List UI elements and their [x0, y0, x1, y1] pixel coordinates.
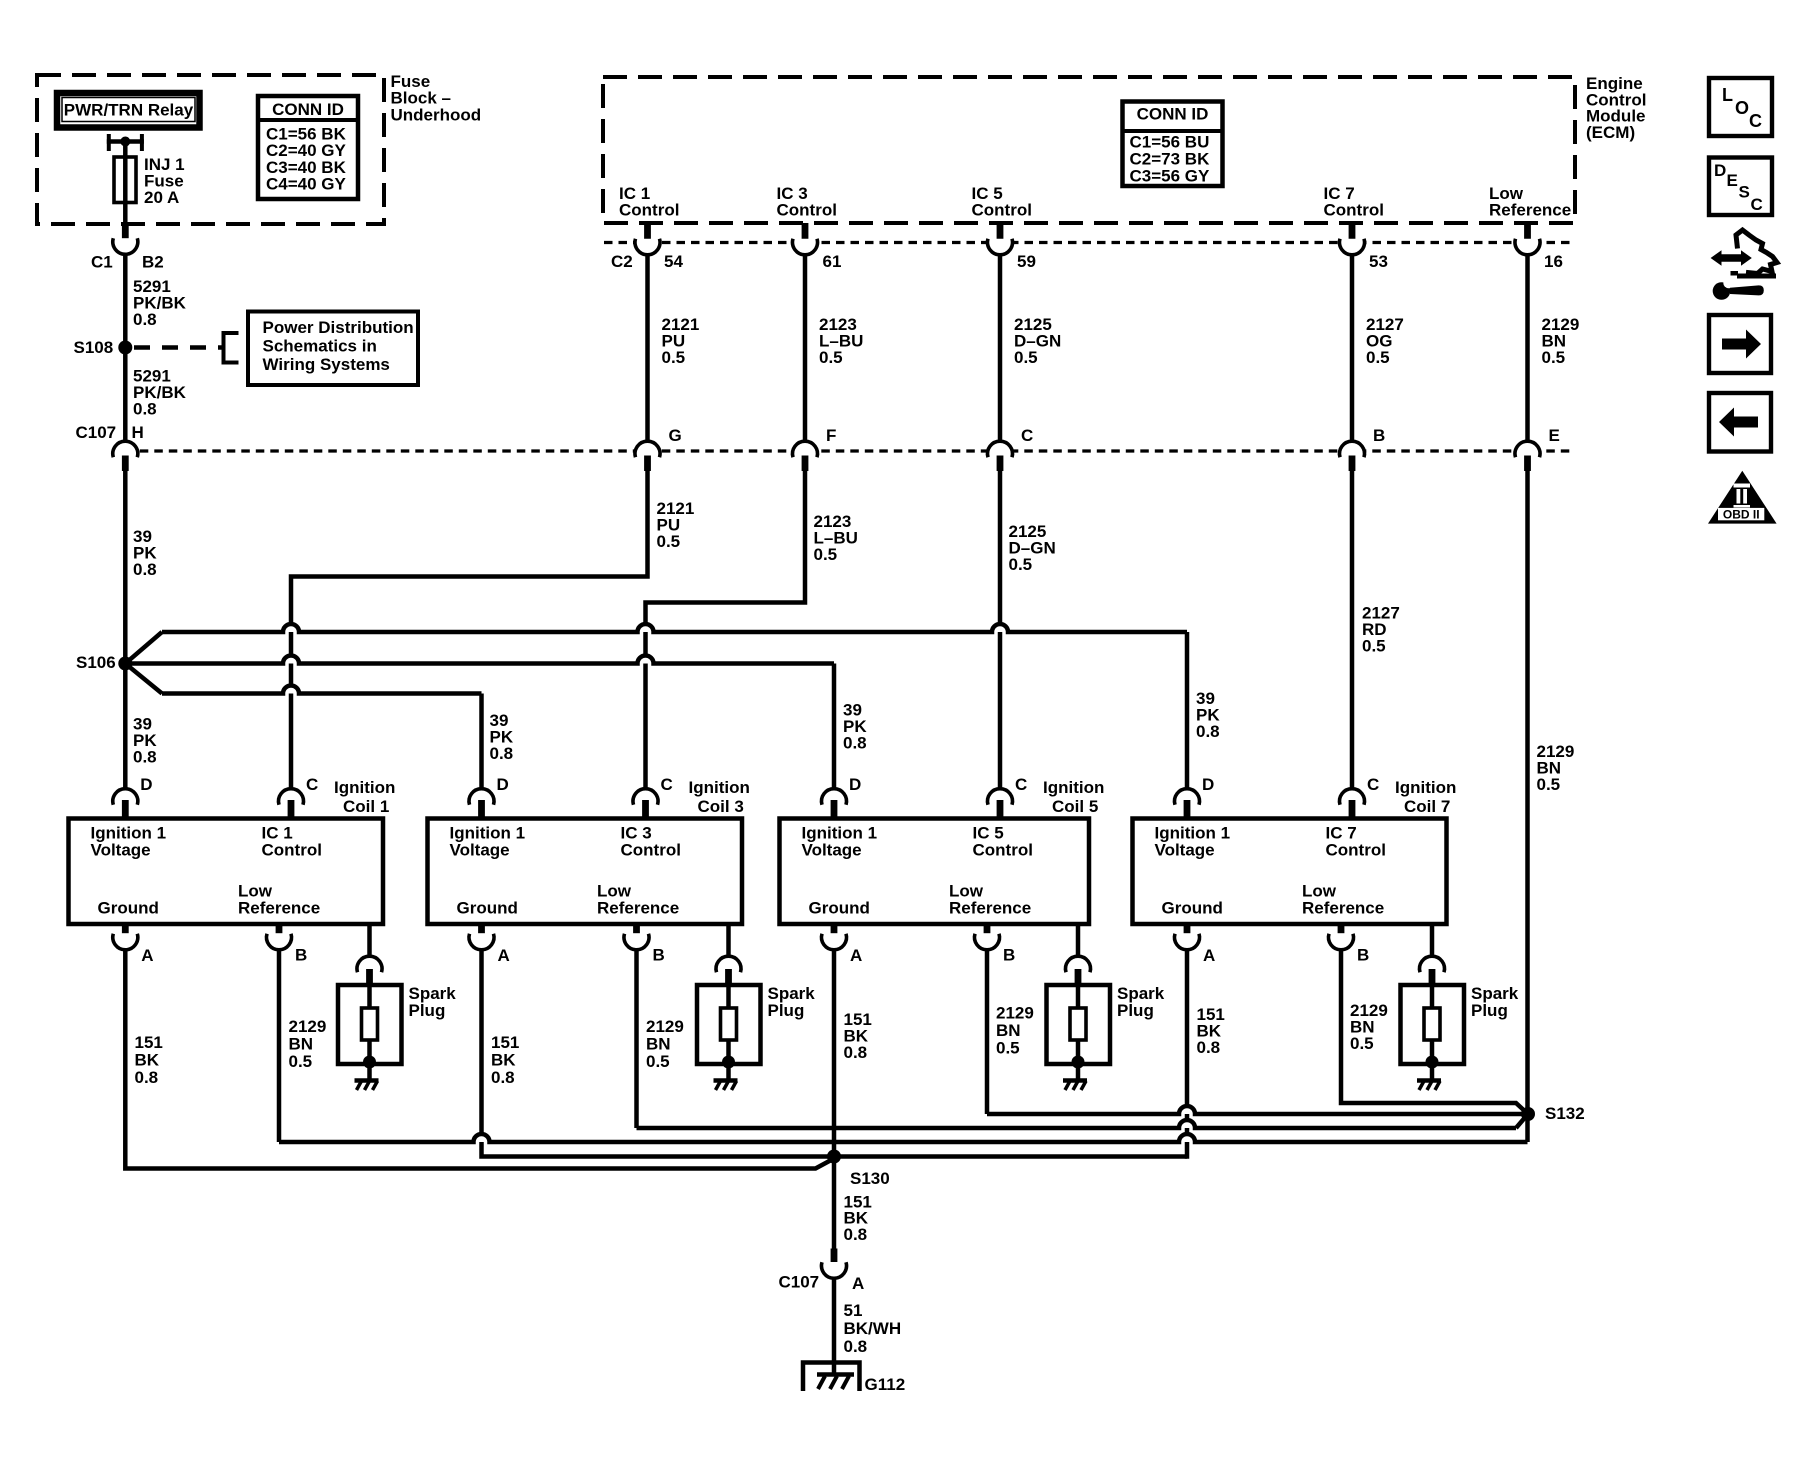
svg-text:CONN ID: CONN ID: [1137, 105, 1209, 124]
ECM connector face dotted line: [604, 241, 1571, 244]
spark plug 7 ground junction dot: [1426, 1056, 1439, 1069]
ECM pin label IC 3 Control: [777, 184, 837, 220]
svg-text:Ignition: Ignition: [689, 778, 750, 797]
svg-text:D: D: [140, 775, 152, 794]
fuse INJ 1 20 A: [114, 157, 136, 203]
wire 2127 OG ECM segment: [1350, 255, 1355, 442]
svg-text:0.5: 0.5: [1537, 775, 1561, 794]
coil 7 pin C: [1340, 789, 1365, 821]
wire 2125 D-GN ECM segment: [998, 255, 1003, 442]
wire 39 PK upper bus to coil 7 D: [125, 624, 1187, 789]
svg-text:Underhood: Underhood: [391, 105, 482, 124]
wire 2129 BN long run to S132: [1525, 471, 1530, 1114]
svg-text:0.5: 0.5: [1014, 348, 1038, 367]
spark plug connector coil 5: [1066, 956, 1091, 987]
label 39 PK 0.8 (coil 5): [843, 701, 867, 753]
coil 7 pin D: [1175, 789, 1200, 821]
wire 2125 D-GN to coil 5: [998, 471, 1003, 789]
svg-text:BN: BN: [289, 1035, 314, 1054]
svg-text:Ignition: Ignition: [334, 778, 395, 797]
label Ignition Coil 1: [334, 778, 395, 816]
svg-text:0.8: 0.8: [133, 560, 157, 579]
svg-text:S130: S130: [850, 1169, 890, 1188]
spark plug connector coil 7: [1420, 956, 1445, 987]
svg-text:Reference: Reference: [238, 899, 320, 918]
connector C107 pin E: [1515, 441, 1540, 471]
label 2127 OG 0.5: [1366, 315, 1404, 367]
wire 2129 BN ECM segment: [1525, 255, 1530, 442]
svg-text:O: O: [1735, 98, 1749, 118]
label Ignition Coil 7: [1395, 778, 1456, 816]
ground G112: [803, 1363, 860, 1392]
wire coil 7 to spark plug: [1430, 924, 1435, 957]
ignition coil 3 box: [428, 819, 743, 925]
label 39 PK 0.8 (H wire): [133, 527, 157, 579]
spark plug connector coil 1: [357, 956, 382, 987]
svg-text:0.5: 0.5: [657, 532, 681, 551]
fuse block underhood dashed box: [37, 75, 384, 224]
coil 3 pin D: [469, 789, 494, 821]
svg-text:Ignition: Ignition: [1043, 778, 1104, 797]
fuse block CONN ID table: [258, 96, 358, 199]
svg-text:G112: G112: [865, 1375, 906, 1394]
spark plug 3 ground junction dot: [722, 1056, 735, 1069]
ignition coil 1 box: [69, 819, 384, 925]
spark plug 7 ground: [1417, 1062, 1441, 1090]
svg-text:Control: Control: [262, 840, 322, 859]
coil 1 pin D: [113, 789, 138, 821]
coil 1 pin C: [279, 789, 304, 821]
wire 39 PK middle bus to coil 5 D: [125, 656, 834, 789]
svg-text:0.5: 0.5: [1009, 555, 1033, 574]
coil 3 pin B: [624, 922, 649, 950]
wire 151 BK coil 1 ground: [125, 950, 834, 1169]
label 39 PK 0.8 (coil 3): [490, 711, 514, 763]
wire 2127 RD to coil 7: [1350, 471, 1355, 789]
coil 5 pin B: [974, 922, 999, 950]
relay contact bracket: [107, 134, 144, 151]
icon DESC box: [1709, 158, 1772, 216]
splice S108: [118, 341, 132, 355]
svg-text:0.8: 0.8: [491, 1068, 515, 1087]
svg-text:B: B: [1357, 946, 1369, 965]
label 151 BK 0.8 coil 1: [135, 1033, 163, 1087]
splice S106: [118, 657, 132, 671]
svg-text:C: C: [1021, 426, 1033, 445]
svg-text:Wiring Systems: Wiring Systems: [263, 355, 390, 374]
wire 2129 BN coil 7 low reference to S132: [1341, 950, 1528, 1115]
svg-text:53: 53: [1369, 252, 1388, 271]
svg-text:S106: S106: [76, 653, 116, 672]
spark plug 5: [1047, 985, 1111, 1064]
label 2123 L-BU 0.5 lower: [814, 512, 858, 564]
connector C107 dotted line: [125, 449, 1571, 452]
label Ignition Coil 3: [689, 778, 750, 816]
svg-text:BN: BN: [646, 1035, 671, 1054]
svg-text:0.8: 0.8: [490, 744, 514, 763]
svg-text:Ignition: Ignition: [1395, 778, 1456, 797]
svg-text:BK/WH: BK/WH: [844, 1319, 902, 1338]
wire 2121 PU to coil 1: [291, 471, 648, 789]
svg-text:151: 151: [135, 1033, 163, 1052]
svg-text:B2: B2: [142, 253, 164, 272]
svg-text:0.5: 0.5: [814, 545, 838, 564]
svg-text:0.5: 0.5: [996, 1039, 1020, 1058]
wire 2129 BN coil 1 low reference to S132: [279, 950, 1528, 1143]
svg-text:59: 59: [1017, 252, 1036, 271]
wire 39 PK lower bus to coil 3 D: [125, 664, 481, 789]
svg-text:A: A: [498, 946, 510, 965]
wire 39 PK from C107 H to S106: [123, 471, 128, 664]
wire 2129 BN coil 5 low reference to S132: [987, 950, 1528, 1115]
svg-text:Ground: Ground: [1162, 899, 1223, 918]
svg-text:0.5: 0.5: [1366, 348, 1390, 367]
ECM pin label IC 7 Control: [1324, 184, 1384, 220]
icon OBD II triangle: [1708, 471, 1777, 524]
svg-text:0.8: 0.8: [133, 400, 157, 419]
coil 1 pin A: [113, 922, 138, 950]
svg-text:S: S: [1739, 183, 1750, 202]
svg-text:C: C: [1751, 195, 1763, 214]
wire coil 3 to spark plug: [726, 924, 731, 957]
label 151 BK 0.8 coil 3: [491, 1033, 519, 1087]
svg-text:0.5: 0.5: [1542, 348, 1566, 367]
label Spark Plug 3: [768, 984, 816, 1020]
svg-text:E: E: [1549, 426, 1560, 445]
label 2129 BN 0.5 coil 1: [289, 1017, 327, 1071]
ignition coil 7 box: [1133, 819, 1447, 925]
svg-text:0.8: 0.8: [1197, 1038, 1221, 1057]
spark plug 5 ground: [1063, 1062, 1087, 1090]
svg-text:Control: Control: [973, 840, 1033, 859]
label 2123 L-BU 0.5: [819, 315, 863, 367]
svg-text:Coil 7: Coil 7: [1404, 797, 1450, 816]
label 151 BK 0.8 coil 5: [844, 1010, 872, 1062]
ECM connector pin IC1: [635, 239, 660, 255]
svg-text:C: C: [1015, 775, 1027, 794]
icon forward arrow box: [1709, 315, 1771, 373]
ECM pin stub IC7: [1349, 223, 1356, 240]
svg-text:C4=40 GY: C4=40 GY: [266, 175, 347, 194]
svg-text:D: D: [497, 775, 509, 794]
icon back arrow box: [1709, 393, 1771, 452]
svg-text:Ground: Ground: [809, 899, 870, 918]
svg-text:C: C: [661, 775, 673, 794]
svg-text:Control: Control: [777, 201, 837, 220]
connector C1 pin B2: [113, 238, 138, 254]
svg-text:Ground: Ground: [98, 899, 159, 918]
label Ignition Coil 5: [1043, 778, 1104, 816]
wire 39 PK S106 to coil 1 D: [123, 664, 128, 789]
wire relay to fuse: [123, 142, 128, 159]
svg-text:S108: S108: [74, 338, 114, 357]
svg-text:151: 151: [491, 1033, 519, 1052]
label 2129 BN 0.5: [1542, 315, 1580, 367]
connector C107 pin C: [987, 441, 1012, 471]
label INJ 1 Fuse 20 A: [144, 155, 185, 207]
label 2127 RD 0.5: [1362, 604, 1400, 656]
label Spark Plug 1: [409, 984, 457, 1020]
coil 7 pin A: [1175, 922, 1200, 950]
svg-text:Control: Control: [621, 840, 681, 859]
ECM connector pin LowRef: [1515, 239, 1540, 255]
svg-text:C3=56 GY: C3=56 GY: [1130, 167, 1211, 186]
wire coil 1 to spark plug: [367, 924, 372, 957]
spark plug connector coil 3: [716, 956, 741, 987]
svg-text:61: 61: [823, 252, 842, 271]
label 2129 BN 0.5 coil 7: [1350, 1001, 1388, 1053]
wire 151 BK coil 5 ground: [832, 950, 837, 1157]
svg-text:D: D: [1714, 161, 1726, 180]
ignition coil 5 box: [780, 819, 1090, 925]
label Engine Control Module (ECM): [1586, 74, 1646, 142]
coil 5 pin C: [987, 789, 1012, 821]
coil 1 pin B: [267, 922, 292, 950]
label Fuse Block Underhood: [391, 72, 482, 124]
relay PWR/TRN Relay: [57, 93, 200, 128]
svg-text:Reference: Reference: [1489, 201, 1571, 220]
label 2129 BN 0.5 coil 5: [996, 1004, 1034, 1058]
svg-text:C107: C107: [76, 423, 117, 442]
svg-text:Reference: Reference: [949, 899, 1031, 918]
connector C107 pin A: [822, 1262, 847, 1278]
svg-text:B: B: [1003, 946, 1015, 965]
svg-text:0.8: 0.8: [135, 1068, 159, 1087]
spark plug 7: [1401, 985, 1465, 1064]
svg-text:L: L: [1722, 85, 1733, 105]
wire 2123 L-BU ECM segment: [803, 255, 808, 442]
spark plug 3 ground: [714, 1062, 738, 1090]
spark plug 1 ground junction dot: [363, 1056, 376, 1069]
svg-text:C2: C2: [611, 252, 633, 271]
svg-text:OBD II: OBD II: [1723, 508, 1760, 522]
svg-text:0.8: 0.8: [133, 748, 157, 767]
connector C107 pin F: [793, 441, 818, 471]
wire 5291 PK/BK upper: [123, 255, 128, 442]
coil 3 pin C: [633, 789, 658, 821]
svg-text:0.8: 0.8: [843, 734, 867, 753]
label 39 PK 0.8 (coil 7): [1196, 689, 1220, 741]
svg-text:F: F: [826, 426, 836, 445]
svg-text:A: A: [1203, 946, 1215, 965]
svg-text:G: G: [669, 426, 682, 445]
icon electrical repair (arrow wrench): [1711, 230, 1777, 300]
svg-text:Plug: Plug: [1471, 1001, 1508, 1020]
label 2129 BN 0.5 coil 3: [646, 1017, 684, 1071]
svg-text:Power Distribution: Power Distribution: [263, 318, 414, 337]
svg-text:D: D: [849, 775, 861, 794]
wire 2129 BN coil 3 low reference to S132: [637, 950, 1529, 1129]
wire 51 BK/WH to G112: [832, 1279, 837, 1375]
svg-text:51: 51: [844, 1301, 863, 1320]
svg-text:0.8: 0.8: [1196, 722, 1220, 741]
svg-text:Plug: Plug: [1117, 1001, 1154, 1020]
label 2121 PU 0.5 lower: [657, 499, 695, 551]
wire 151 BK coil 3 ground + A bus: [482, 950, 1188, 1157]
ECM pin stub IC3: [802, 223, 809, 240]
svg-text:D: D: [1202, 775, 1214, 794]
wire fuse to C1 connector: [123, 203, 128, 226]
label 151 BK 0.8 coil 7: [1197, 1005, 1225, 1057]
ECM connector pin IC7: [1340, 239, 1365, 255]
svg-text:0.8: 0.8: [133, 310, 157, 329]
ECM pin label IC 5 Control: [972, 184, 1032, 220]
svg-text:Coil 3: Coil 3: [698, 797, 744, 816]
svg-text:0.8: 0.8: [844, 1043, 868, 1062]
svg-text:C: C: [306, 775, 318, 794]
coil 3 pin A: [469, 922, 494, 950]
label Spark Plug 5: [1117, 984, 1165, 1020]
svg-text:0.5: 0.5: [1350, 1034, 1374, 1053]
svg-text:Voltage: Voltage: [450, 840, 510, 859]
wire 2121 PU ECM segment: [645, 255, 650, 442]
svg-text:A: A: [850, 946, 862, 965]
svg-text:B: B: [295, 946, 307, 965]
svg-text:2129: 2129: [289, 1017, 327, 1036]
svg-text:Reference: Reference: [1302, 899, 1384, 918]
wire 2123 L-BU to coil 3: [646, 471, 806, 789]
svg-text:2129: 2129: [996, 1004, 1034, 1023]
svg-text:Schematics in: Schematics in: [263, 337, 377, 356]
spark plug 1 ground: [355, 1062, 379, 1090]
label 2121 PU 0.5: [662, 315, 700, 367]
dashed reference link from S108: [134, 345, 222, 350]
svg-text:Control: Control: [1326, 840, 1386, 859]
svg-text:Voltage: Voltage: [1155, 840, 1215, 859]
spark plug 1: [338, 985, 402, 1064]
svg-text:C: C: [1367, 775, 1379, 794]
engine control module dashed box: [603, 77, 1575, 223]
reference bracket: [224, 333, 239, 363]
label 39 PK 0.8 (coil 1): [133, 715, 157, 767]
wire 151 BK S130 to C107 A: [832, 1157, 837, 1250]
svg-text:S132: S132: [1545, 1104, 1585, 1123]
ECM pin stub IC1: [644, 223, 651, 240]
svg-text:B: B: [653, 946, 665, 965]
svg-text:BK: BK: [491, 1051, 516, 1070]
svg-text:CONN ID: CONN ID: [272, 100, 344, 119]
coil 5 pin A: [822, 922, 847, 950]
label 5291 PK/BK 0.8 upper: [133, 277, 187, 329]
svg-text:16: 16: [1544, 252, 1563, 271]
label 2129 BN 0.5 long run: [1537, 742, 1575, 794]
spark plug 3: [697, 985, 761, 1064]
label 2125 D-GN 0.5 lower: [1009, 522, 1056, 574]
svg-text:Coil 5: Coil 5: [1052, 797, 1098, 816]
connector C107 pin H: [113, 441, 138, 471]
svg-text:PWR/TRN Relay: PWR/TRN Relay: [64, 101, 194, 120]
svg-text:H: H: [132, 423, 144, 442]
label Spark Plug 7: [1471, 984, 1519, 1020]
connector C107 pin G: [635, 441, 660, 471]
ECM pin label Low Reference: [1489, 184, 1571, 220]
label 5291 PK/BK 0.8 lower: [133, 367, 187, 419]
svg-text:C1: C1: [91, 253, 113, 272]
icon LOC box: [1709, 78, 1772, 136]
label 2125 D-GN 0.5: [1014, 315, 1061, 367]
svg-text:Plug: Plug: [409, 1001, 446, 1020]
label 151 BK 0.8 S130: [844, 1193, 872, 1244]
ECM pin stub IC5: [997, 223, 1004, 240]
svg-text:Coil 1: Coil 1: [343, 797, 389, 816]
relay pin junction dot: [120, 137, 130, 147]
svg-text:(ECM): (ECM): [1586, 123, 1635, 142]
svg-text:0.5: 0.5: [289, 1052, 313, 1071]
svg-text:Voltage: Voltage: [91, 840, 151, 859]
svg-text:Control: Control: [1324, 201, 1384, 220]
svg-text:B: B: [1373, 426, 1385, 445]
svg-text:Ground: Ground: [457, 899, 518, 918]
splice S130: [827, 1150, 841, 1164]
svg-text:Control: Control: [972, 201, 1032, 220]
svg-text:2129: 2129: [646, 1017, 684, 1036]
ECM connector pin IC5: [987, 239, 1012, 255]
svg-text:A: A: [852, 1274, 864, 1293]
splice S132: [1521, 1107, 1535, 1121]
svg-text:0.5: 0.5: [819, 348, 843, 367]
wire coil 5 to spark plug: [1076, 924, 1081, 957]
ECM CONN ID table: [1123, 102, 1223, 187]
svg-text:0.5: 0.5: [662, 348, 686, 367]
connector C107 pin B: [1340, 441, 1365, 471]
svg-text:0.8: 0.8: [844, 1337, 868, 1356]
svg-text:Voltage: Voltage: [802, 840, 862, 859]
ECM connector pin IC3: [793, 239, 818, 255]
svg-text:A: A: [141, 946, 153, 965]
svg-text:BN: BN: [996, 1021, 1021, 1040]
svg-text:Control: Control: [619, 201, 679, 220]
svg-text:0.5: 0.5: [1362, 637, 1386, 656]
ECM pin label IC 1 Control: [619, 184, 679, 220]
svg-text:E: E: [1727, 171, 1738, 190]
svg-text:54: 54: [664, 252, 683, 271]
svg-text:C107: C107: [779, 1273, 820, 1292]
coil 5 pin D: [822, 789, 847, 821]
svg-text:0.5: 0.5: [646, 1052, 670, 1071]
svg-text:C: C: [1749, 111, 1762, 131]
note box Power Distribution Schematics in Wiring Systems: [248, 312, 418, 386]
coil 7 pin B: [1329, 922, 1354, 950]
wire 151 BK coil 7 ground: [1185, 950, 1190, 1159]
spark plug 5 ground junction dot: [1072, 1056, 1085, 1069]
svg-text:Plug: Plug: [768, 1001, 805, 1020]
svg-text:20 A: 20 A: [144, 188, 179, 207]
svg-text:0.8: 0.8: [844, 1225, 868, 1244]
svg-text:Reference: Reference: [597, 899, 679, 918]
svg-text:BK: BK: [135, 1051, 160, 1070]
label 51 BK/WH 0.8: [844, 1301, 902, 1356]
ECM pin stub LowRef: [1524, 223, 1531, 240]
